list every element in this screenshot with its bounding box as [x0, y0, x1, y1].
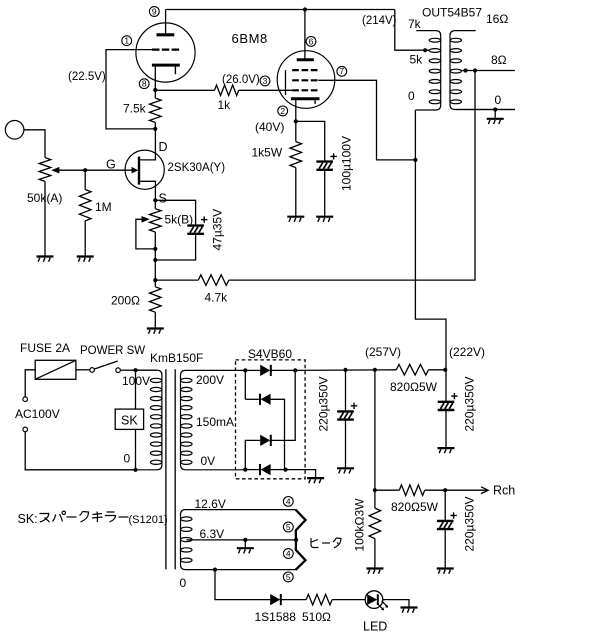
triode cathode bar — [152, 64, 180, 67]
ground LED — [401, 608, 418, 613]
wire C2 to ground — [324, 170, 326, 215]
svg-text:1M: 1M — [95, 200, 112, 214]
resistor R1 1M — [79, 190, 91, 221]
svg-text:12.6V: 12.6V — [195, 497, 226, 511]
wire tap to ground — [244, 540, 246, 547]
pentode g2 dashes — [292, 79, 318, 81]
switch contact left — [90, 368, 95, 373]
pentode cathode bar — [291, 97, 320, 100]
resistor R1 1M lead — [84, 170, 86, 189]
transistor Q1 source lead — [140, 181, 155, 200]
svg-text:(S1201): (S1201) — [129, 514, 168, 526]
svg-text:100V: 100V — [122, 374, 150, 388]
svg-text:150mA: 150mA — [196, 415, 234, 429]
pin 9 — [149, 6, 159, 16]
capacitor C5 220u350V — [437, 521, 454, 529]
svg-text:POWER SW: POWER SW — [80, 345, 145, 357]
node C3 tap — [343, 368, 347, 372]
wire switch to transformer — [120, 369, 135, 371]
triode cathode lead — [154, 67, 156, 91]
wire cathode to R3 — [155, 89, 214, 91]
transistor Q1 gate arrow — [132, 167, 139, 174]
potentiometer VR2 5k(B) lead — [154, 200, 156, 208]
pentode plate bar — [297, 58, 314, 61]
node bridge DC+ — [293, 368, 297, 372]
node heater 0 junction — [213, 568, 217, 572]
wire to D2 — [245, 398, 260, 400]
VR2 wiper loop — [136, 219, 155, 249]
svg-text:100kΩ3W: 100kΩ3W — [353, 498, 367, 552]
wire R3 to pentode g1 — [239, 89, 293, 91]
bridge dashed box — [236, 360, 306, 479]
svg-text:4.7k: 4.7k — [205, 291, 229, 305]
AC terminal bottom — [23, 427, 28, 432]
svg-text:200Ω: 200Ω — [111, 294, 140, 308]
wire jack to volume pot — [24, 130, 45, 158]
svg-text:510Ω: 510Ω — [302, 610, 331, 624]
resistor R7 820ohm5W — [396, 365, 428, 376]
triode V1a envelope — [136, 23, 195, 82]
svg-text:0: 0 — [495, 93, 502, 107]
wire D1 to DC+ — [272, 369, 296, 371]
svg-text:FUSE 2A: FUSE 2A — [20, 341, 70, 355]
resistor R3 1k — [215, 85, 239, 96]
svg-text:8Ω: 8Ω — [491, 53, 507, 67]
pin 3 — [260, 76, 270, 86]
svg-text:G: G — [106, 158, 116, 172]
svg-text:7: 7 — [339, 66, 344, 76]
ground C3 — [337, 468, 354, 473]
svg-text:S: S — [159, 192, 167, 206]
ground heater CT — [237, 548, 254, 553]
VR2 wiper arrow — [142, 216, 150, 223]
resistor R4 200ohm — [150, 287, 162, 312]
svg-text:(22.5V): (22.5V) — [68, 71, 106, 83]
node 222V — [443, 368, 447, 372]
wire node to R5 — [155, 279, 198, 281]
svg-text:2: 2 — [280, 106, 285, 116]
resistor R2 7.5k — [150, 98, 162, 122]
triode grid dashes — [152, 48, 179, 50]
svg-text:(257V): (257V) — [365, 345, 401, 359]
wire C5 to ground — [444, 530, 446, 568]
wire 0 output — [456, 109, 516, 111]
wire AC1 down to D2 row — [244, 370, 246, 399]
wire g2 to screen node — [318, 80, 415, 160]
PT primary winding — [136, 370, 162, 470]
svg-text:4: 4 — [286, 548, 291, 558]
wire fuse to switch — [76, 369, 90, 371]
transistor Q1 gate wire — [85, 169, 132, 171]
wire R10 to LED — [332, 599, 365, 601]
svg-text:16Ω: 16Ω — [486, 12, 508, 26]
node cap return — [153, 258, 157, 262]
pin 2 — [278, 106, 288, 116]
capacitor C1 47u35V — [187, 226, 204, 234]
svg-text:5: 5 — [286, 572, 291, 582]
ground OPT secondary — [487, 119, 504, 124]
node source — [153, 198, 157, 202]
plus C2 — [330, 153, 336, 159]
wire R5 to 8ohm tap — [229, 71, 475, 281]
resistor R2 7.5k leads — [154, 90, 156, 98]
svg-text:S4VB60: S4VB60 — [248, 347, 292, 361]
resistor R9 100k3W lead — [374, 490, 376, 508]
PT heater winding — [181, 510, 296, 570]
ground R1 — [77, 257, 94, 262]
wire R8 to C5 node — [425, 489, 446, 491]
PT core — [165, 369, 167, 569]
node junction pentode plate on rail — [303, 7, 307, 11]
VR1 wiper arrow — [51, 167, 59, 174]
wire VR1 to ground — [44, 181, 46, 255]
transistor Q1 drain lead — [140, 129, 155, 160]
plus C3 — [351, 403, 357, 409]
capacitor C3 wire — [345, 370, 347, 411]
node 5k tap — [423, 48, 427, 52]
wire DC+ rail — [295, 369, 396, 372]
wire Rch arrow — [445, 489, 487, 491]
svg-text:220µ350V: 220µ350V — [317, 377, 331, 432]
wire rail to 5k tap — [395, 10, 429, 51]
OPT secondary winding — [450, 31, 515, 110]
svg-text:Rch: Rch — [493, 484, 515, 498]
diode D5 1S1588 — [270, 594, 281, 605]
spark killer branch wire top — [135, 370, 137, 409]
svg-text:5k: 5k — [410, 53, 424, 67]
wire AC1 to D1 — [245, 369, 260, 371]
node heater mid — [294, 538, 298, 542]
ground C2 — [316, 217, 333, 222]
pentode cathode tick — [314, 100, 316, 104]
node gate — [83, 168, 87, 172]
wire R1 to ground — [84, 221, 86, 256]
wire R9 to ground — [374, 539, 376, 568]
wire primary top lead — [136, 369, 158, 371]
pin 8 — [139, 79, 149, 89]
node bridge AC2 — [243, 468, 247, 472]
capacitor C4 wire — [445, 370, 447, 401]
wire cathode to C2 — [296, 121, 325, 160]
svg-text:3: 3 — [263, 76, 268, 86]
svg-text:(222V): (222V) — [449, 345, 485, 359]
ground bridge — [307, 478, 324, 483]
wire LED to ground — [383, 600, 409, 607]
wire 6.3V tap — [186, 539, 296, 541]
node drain junction — [153, 127, 157, 131]
ground C5 — [437, 569, 454, 574]
PT secondary winding — [181, 370, 246, 469]
resistor R5 4.7k — [198, 275, 229, 286]
svg-text:(40V): (40V) — [255, 120, 284, 134]
potentiometer VR2 5k(B) — [150, 209, 162, 232]
resistor R10 510ohm — [306, 594, 332, 605]
svg-text:200V: 200V — [196, 373, 224, 387]
heater H2 chevron — [296, 540, 306, 570]
wire VR2 to node — [154, 232, 156, 249]
svg-text:5k(B): 5k(B) — [165, 213, 194, 227]
resistor R6 1k5W — [290, 142, 302, 168]
plus C4 — [451, 393, 457, 399]
wire AC2 to D4 — [245, 469, 260, 471]
switch lever — [94, 361, 117, 369]
pentode cathode lead — [295, 100, 297, 121]
svg-text:220µ350V: 220µ350V — [463, 497, 477, 552]
node feedback tap — [473, 68, 477, 72]
node bridge AC1 — [243, 368, 247, 372]
wire source to C1 — [155, 200, 195, 224]
pin 4 upper — [283, 496, 293, 506]
resistor R6 1k5W lead — [295, 121, 297, 141]
triode cathode tick — [174, 67, 176, 75]
capacitor C3 220u350V — [337, 411, 354, 419]
wire 8ohm output — [462, 70, 515, 72]
wire B+ top rail — [166, 9, 395, 11]
node 6.3V ground tap — [243, 538, 247, 542]
OPT primary winding — [415, 31, 440, 110]
svg-text:100µ100V: 100µ100V — [340, 136, 354, 191]
svg-text:7k: 7k — [408, 17, 422, 31]
pin 4 lower — [283, 548, 293, 558]
capacitor C5 wire — [444, 490, 446, 520]
svg-text:1S1588: 1S1588 — [255, 610, 297, 624]
svg-text:220µ350V: 220µ350V — [463, 377, 477, 432]
plus C5 — [450, 512, 456, 518]
pentode grid tie bar — [285, 70, 287, 95]
node 0 ground tap — [493, 107, 497, 111]
node triode cathode — [153, 88, 157, 92]
wire D2 to DCminus rail — [271, 399, 285, 469]
node bleeder tap — [373, 368, 377, 372]
ground R6 — [287, 217, 304, 222]
wire D5 to R10 — [282, 599, 307, 601]
node wiper return — [153, 247, 157, 251]
pin 1 — [122, 36, 132, 46]
svg-text:6BM8: 6BM8 — [232, 31, 268, 46]
pin 5 upper — [283, 522, 293, 532]
resistor R8 820ohm5W — [399, 485, 424, 496]
node screen junction — [413, 158, 417, 162]
capacitor C2 100u100V — [316, 162, 333, 170]
node primary top — [133, 368, 137, 372]
svg-text:0: 0 — [180, 576, 187, 590]
svg-text:0V: 0V — [201, 454, 216, 468]
svg-text:SK:: SK: — [18, 512, 38, 526]
wire column down — [154, 249, 156, 287]
LED DL1 — [365, 591, 388, 611]
svg-text:5: 5 — [286, 522, 291, 532]
node bridge DCminus — [283, 468, 287, 472]
spark killer branch wire bottom — [135, 429, 137, 469]
wire DCminus to ground — [286, 470, 316, 478]
pin 5 lower — [283, 572, 293, 582]
svg-text:6.3V: 6.3V — [200, 527, 225, 541]
resistor R2 lead bottom — [154, 122, 156, 128]
wire OPT primary 0 to 222V node — [415, 110, 446, 370]
plus C1 — [201, 216, 207, 222]
ground VR1 — [37, 257, 54, 262]
diode D1 — [260, 365, 271, 376]
label heater katakana — [311, 538, 341, 548]
wire DC+ down to D3 row — [271, 370, 295, 440]
triode plate lead — [165, 10, 167, 35]
svg-text:LED: LED — [363, 620, 387, 634]
potentiometer VR1 50k(A) — [39, 158, 51, 182]
svg-text:OUT54B57: OUT54B57 — [422, 6, 482, 20]
node feedback takeoff — [153, 278, 157, 282]
svg-text:47µ35V: 47µ35V — [211, 209, 225, 251]
node C5 — [443, 488, 447, 492]
svg-text:9: 9 — [152, 6, 157, 16]
switch contact right — [116, 368, 121, 373]
node 8ohm tap — [463, 68, 467, 72]
transistor Q1 2SK30A envelope — [125, 150, 164, 189]
svg-text:SK: SK — [121, 414, 138, 428]
ground R9 — [366, 569, 383, 574]
svg-text:AC100V: AC100V — [15, 407, 60, 421]
svg-text:4: 4 — [286, 496, 291, 506]
node pentode cathode — [294, 119, 298, 123]
capacitor C4 220u350V — [438, 402, 455, 410]
svg-text:KmB150F: KmB150F — [150, 351, 203, 365]
resistor R9 100kohm3W — [369, 508, 381, 538]
node Rch feed — [373, 488, 377, 492]
svg-text:1k5W: 1k5W — [252, 146, 283, 160]
wire AC hot to fuse — [25, 370, 35, 397]
spark killer SK box — [115, 409, 143, 429]
fuse F1 — [35, 360, 76, 379]
svg-text:(214V): (214V) — [362, 15, 397, 27]
wire C3 to ground — [345, 420, 347, 467]
diode D3 — [260, 435, 271, 446]
ground R4 — [147, 329, 164, 334]
svg-text:6: 6 — [309, 36, 314, 46]
svg-text:7.5k: 7.5k — [123, 102, 147, 116]
pentode g3 dashes — [292, 69, 318, 71]
pentode plate lead — [304, 10, 306, 59]
wire AC return — [25, 432, 135, 470]
wire R7 to 222V node — [429, 369, 446, 371]
wire D4 to DCminus — [271, 469, 286, 471]
pin 6 — [306, 36, 316, 46]
arrow Rch — [481, 487, 488, 494]
heater H1 chevron — [296, 510, 306, 540]
svg-text:0: 0 — [124, 452, 131, 466]
wire wiper to gate node — [59, 169, 85, 171]
svg-text:8: 8 — [142, 79, 147, 89]
diode D4 — [260, 464, 271, 475]
wire heater0 down — [215, 570, 270, 600]
wire bleeder vertical — [374, 370, 376, 490]
triode plate bar — [157, 33, 175, 36]
svg-text:820Ω5W: 820Ω5W — [391, 500, 439, 514]
transistor Q1 channel bar — [138, 157, 140, 185]
svg-text:1k: 1k — [218, 98, 232, 112]
diode D2 — [260, 394, 271, 405]
wire R6 to ground — [295, 168, 297, 216]
svg-text:50k(A): 50k(A) — [27, 191, 62, 205]
wire grid of V1a to drain node — [106, 50, 155, 129]
svg-text:0: 0 — [408, 89, 415, 103]
svg-text:D: D — [159, 140, 168, 154]
ground C4 — [438, 448, 455, 453]
svg-text:(26.0V): (26.0V) — [222, 74, 260, 86]
svg-text:1: 1 — [124, 36, 129, 46]
wire R4 to ground — [154, 312, 156, 327]
input jack — [5, 121, 24, 140]
node primary bottom — [133, 468, 137, 472]
pentode V1b envelope — [277, 51, 335, 109]
wire node to R8 — [375, 489, 399, 491]
svg-text:820Ω5W: 820Ω5W — [390, 380, 438, 394]
wire C4 to ground — [445, 411, 447, 448]
pin 7 — [337, 66, 347, 76]
pentode g1 dashes — [292, 89, 318, 91]
wire D3 to AC2 — [245, 440, 260, 469]
wire to ground 0 — [494, 110, 496, 118]
AC terminal top — [23, 397, 28, 402]
svg-text:2SK30A(Y): 2SK30A(Y) — [168, 162, 226, 174]
wire C1 to column — [155, 234, 195, 260]
